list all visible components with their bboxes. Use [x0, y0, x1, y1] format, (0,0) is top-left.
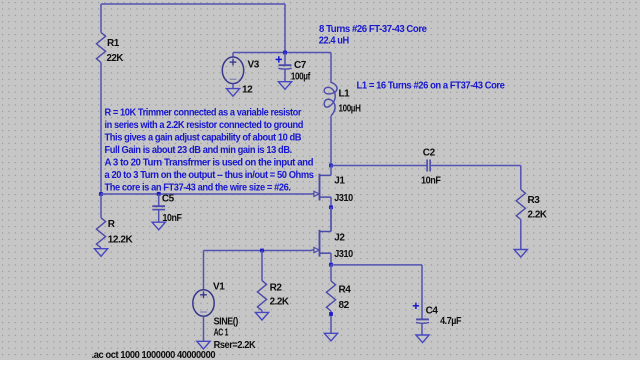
wire: [101, 193, 312, 195]
svg-text:This gives a gain adjust capab: This gives a gain adjust capability of a…: [105, 132, 302, 143]
ground (R): [94, 249, 107, 257]
svg-text:C2: C2: [423, 148, 436, 159]
resistor R1: [96, 33, 105, 63]
svg-text:C5: C5: [162, 194, 175, 205]
node J1 source / J2 drain: [329, 205, 333, 209]
svg-text:12.2K: 12.2K: [108, 234, 134, 245]
capacitor C5: [152, 206, 165, 209]
wire: [204, 250, 312, 252]
svg-text:4.7µF: 4.7µF: [440, 316, 461, 327]
svg-text:2.2K: 2.2K: [528, 210, 548, 221]
svg-text:R = 10K Trimmer connected as a: R = 10K Trimmer connected as a variable …: [105, 107, 302, 118]
wire: [158, 194, 160, 206]
svg-text:R4: R4: [339, 285, 352, 296]
svg-text:Rser=2.2K: Rser=2.2K: [214, 340, 257, 351]
wire: [261, 311, 263, 313]
svg-text:2.2K: 2.2K: [270, 297, 290, 308]
wire: [520, 220, 522, 250]
wire: [284, 4, 286, 53]
wire: [284, 53, 286, 66]
transistor J1 (JFET J310): [312, 174, 332, 201]
svg-text:22.4 uH: 22.4 uH: [319, 35, 349, 46]
wire: [330, 116, 332, 166]
C4 polarity +: [413, 303, 419, 309]
svg-text:a 20 to 3 Turn on the output -: a 20 to 3 Turn on the output -- thus in/…: [105, 170, 315, 181]
node R2 tap: [260, 249, 264, 253]
svg-text:J310: J310: [334, 249, 353, 260]
wire: [330, 253, 332, 265]
resistor R2: [257, 281, 266, 311]
wire: [520, 166, 522, 190]
capacitor C7: [278, 65, 291, 69]
svg-text:R1: R1: [107, 38, 120, 49]
svg-text:Full Gain is about 23 dB and m: Full Gain is about 23 dB and min gain is…: [105, 145, 293, 156]
svg-text:SINE(): SINE(): [214, 316, 238, 327]
ground (R3): [514, 250, 527, 258]
resistor R4: [326, 281, 335, 311]
wire: [330, 265, 332, 281]
node C5 tap: [157, 192, 161, 196]
ground (C5): [152, 222, 165, 230]
ground (V3): [226, 89, 239, 97]
ground (R4): [324, 333, 337, 341]
svg-text:AC 1: AC 1: [214, 327, 229, 338]
wire: [330, 197, 332, 207]
svg-text:.ac oct 1000 1000000 40000000: .ac oct 1000 1000000 40000000: [92, 350, 216, 360]
svg-text:C4: C4: [426, 305, 439, 316]
ground (C4): [416, 335, 429, 343]
svg-text:L1 = 16 Turns #26 on a FT37-43: L1 = 16 Turns #26 on a FT37-43 Core: [357, 81, 506, 92]
wire: [233, 52, 285, 54]
transistor J2 (JFET J310): [312, 230, 332, 257]
wire: [100, 194, 102, 218]
wire: [203, 316, 205, 341]
capacitor C4: [416, 319, 429, 323]
wire: [232, 84, 234, 89]
voltage source V1: [193, 290, 214, 317]
capacitor C2: [427, 160, 430, 172]
svg-text:8 Turns #26 FT-37-43 Core: 8 Turns #26 FT-37-43 Core: [319, 24, 427, 35]
svg-text:V1: V1: [213, 281, 225, 292]
wire: [284, 69, 286, 81]
ground (R2): [255, 312, 268, 320]
inductor L1: [324, 82, 337, 116]
svg-text:100µH: 100µH: [339, 104, 361, 115]
resistor R3: [516, 190, 525, 220]
svg-text:R3: R3: [528, 195, 541, 206]
node R1/R divider node: [99, 192, 103, 196]
svg-text:in series with a 2.2K resistor: in series with a 2.2K resistor connected…: [105, 120, 304, 131]
wire: [421, 265, 423, 320]
wire: [101, 3, 285, 5]
wire: [330, 311, 332, 333]
wire: [331, 165, 427, 167]
svg-text:82: 82: [339, 300, 350, 311]
svg-text:A 3 to 20 Turn Transfrmer is u: A 3 to 20 Turn Transfrmer is used on the…: [105, 157, 314, 168]
wire: [330, 207, 332, 231]
ground (C7): [278, 82, 291, 90]
resistor R: [96, 218, 105, 248]
svg-text:10nF: 10nF: [421, 176, 441, 187]
svg-text:J1: J1: [334, 175, 345, 186]
wire: [158, 210, 160, 223]
wire: [331, 264, 422, 266]
wire: [261, 251, 263, 281]
voltage source V3: [222, 57, 243, 84]
svg-text:The core is an FT37-43 and the: The core is an FT37-43 and the wire size…: [105, 182, 292, 193]
C7 polarity +: [276, 56, 282, 62]
wire: [330, 53, 332, 84]
svg-text:C7: C7: [294, 60, 307, 71]
wire: [100, 4, 102, 33]
wire: [100, 63, 102, 195]
wire: [203, 251, 205, 290]
wire: [330, 207, 332, 231]
svg-text:22K: 22K: [107, 53, 125, 64]
wire: [421, 324, 423, 335]
svg-text:J2: J2: [334, 233, 345, 244]
wire: [430, 165, 521, 167]
node supply junction: [283, 51, 287, 55]
svg-text:L1: L1: [339, 88, 351, 99]
svg-text:R2: R2: [270, 283, 283, 294]
node drain node: [329, 164, 333, 168]
wire: [232, 53, 234, 58]
ground (V1): [197, 341, 210, 349]
svg-text:V3: V3: [248, 59, 260, 70]
node J2 source node: [329, 263, 333, 267]
wire: [285, 52, 331, 54]
node R4 bottom: [329, 312, 333, 316]
svg-text:12: 12: [242, 85, 253, 96]
svg-text:J310: J310: [334, 193, 353, 204]
wire: [330, 166, 332, 176]
svg-text:100µf: 100µf: [291, 72, 311, 83]
